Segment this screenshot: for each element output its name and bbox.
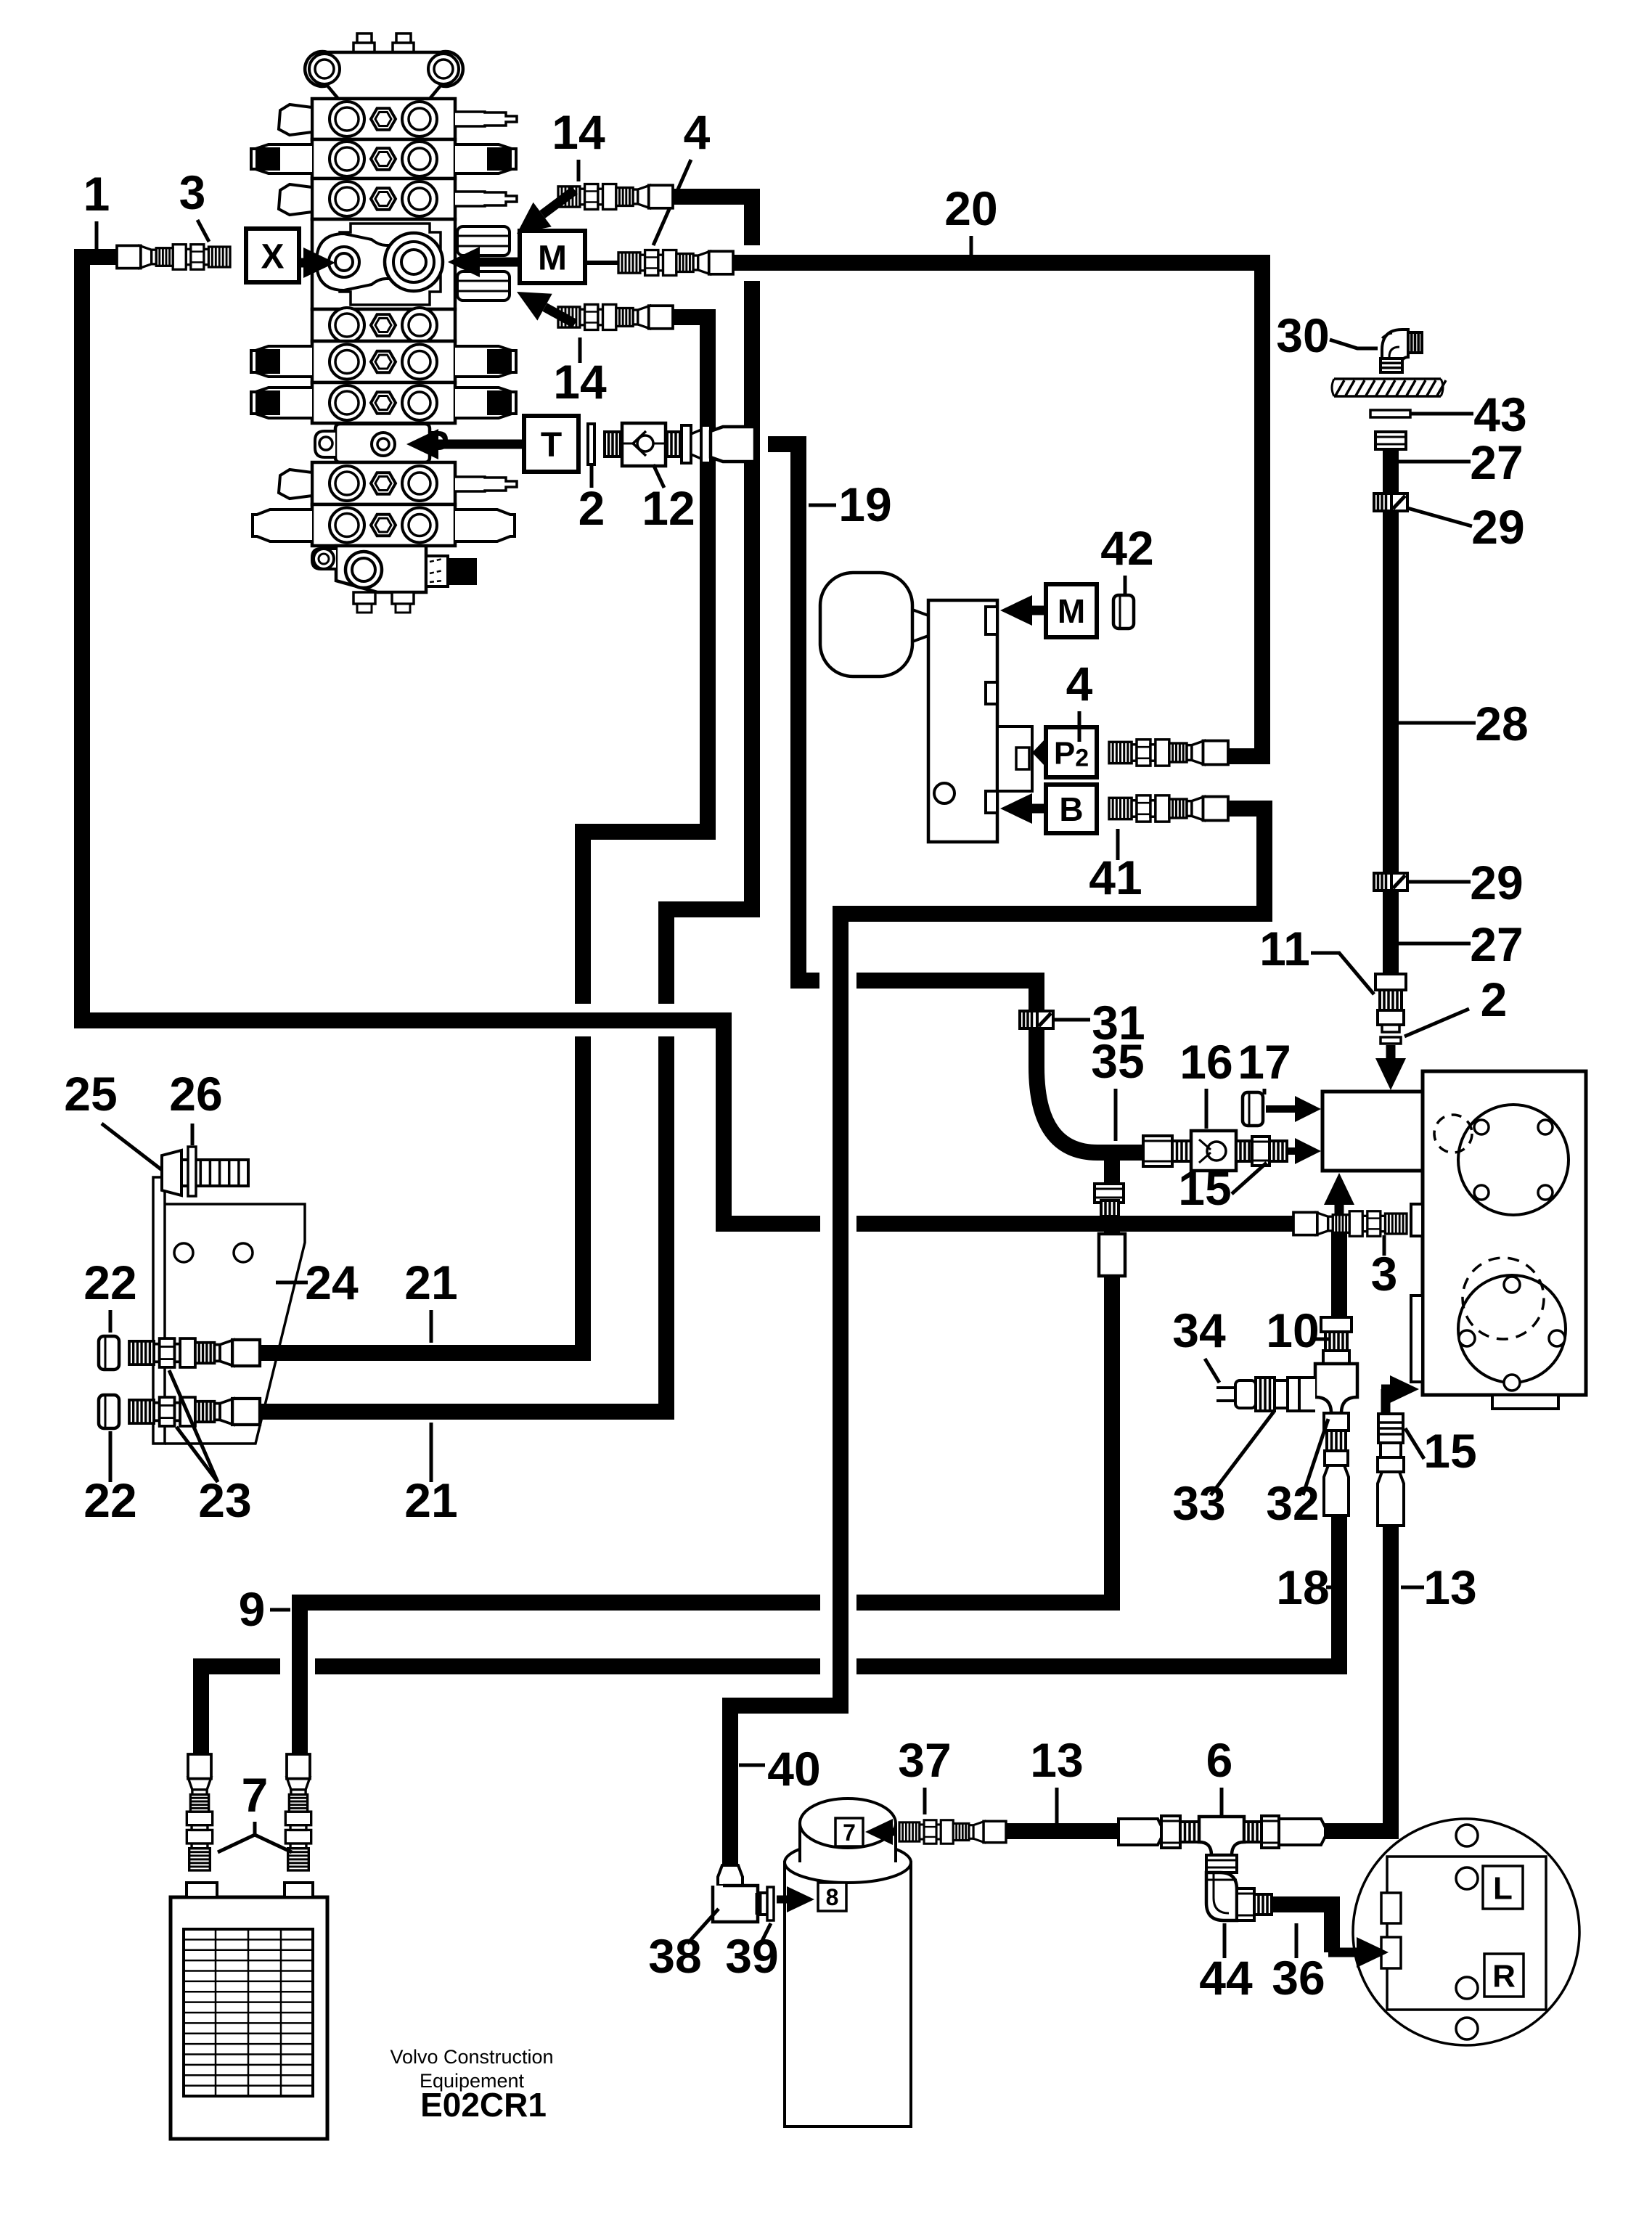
svg-text:1: 1 — [83, 167, 110, 221]
svg-text:28: 28 — [1475, 697, 1528, 750]
arrow M into spool — [448, 247, 520, 277]
svg-text:20: 20 — [944, 181, 997, 235]
svg-text:30: 30 — [1276, 308, 1329, 362]
wire hose 1 (X supply) — [82, 257, 820, 1224]
arrow up into priority valve bottom — [1324, 1173, 1354, 1219]
fitting 3 at pump — [1293, 1211, 1407, 1236]
svg-text:40: 40 — [767, 1742, 820, 1796]
svg-text:T: T — [541, 426, 562, 465]
fitting 15 lower — [1378, 1414, 1404, 1526]
plug 42 — [1113, 595, 1134, 629]
wire hose pump tee branch — [1331, 1224, 1347, 1317]
svg-text:29: 29 — [1470, 856, 1523, 909]
wire hose 18 from tee — [856, 1513, 1339, 1666]
svg-text:37: 37 — [898, 1733, 951, 1787]
fitting 11 — [1375, 974, 1406, 1032]
svg-text:L: L — [1493, 1870, 1513, 1906]
box T — [524, 416, 578, 472]
valve section row 5 — [251, 341, 516, 382]
bracket 24 — [153, 1177, 305, 1444]
elbow fitting 38 — [713, 1865, 769, 1922]
svg-text:2: 2 — [1481, 973, 1508, 1026]
wire hose 35 curve — [856, 981, 1150, 1153]
svg-text:2: 2 — [578, 481, 605, 535]
wire hose 19 from check valve 12 — [768, 444, 819, 981]
valve section row 8 — [253, 504, 515, 546]
svg-text:14: 14 — [552, 105, 605, 159]
radiator / oil cooler — [171, 1883, 327, 2139]
svg-text:35: 35 — [1091, 1034, 1144, 1088]
svg-text:13: 13 — [1423, 1560, 1476, 1614]
check valve 16 assembly — [1143, 1131, 1287, 1171]
svg-text:4: 4 — [684, 105, 711, 159]
arrow M acc — [1000, 595, 1046, 626]
wire hose 28 vertical — [1383, 447, 1399, 976]
clamp 31 — [1020, 1011, 1053, 1028]
svg-text:10: 10 — [1266, 1304, 1319, 1357]
svg-text:41: 41 — [1089, 851, 1142, 904]
valve relief end section — [312, 546, 477, 613]
svg-text:27: 27 — [1470, 917, 1523, 971]
wire hose 13 from pump — [1006, 1513, 1391, 1831]
svg-text:39: 39 — [725, 1929, 778, 1983]
fitting 32 — [1324, 1413, 1349, 1515]
fitting 41 at B — [1109, 795, 1228, 822]
svg-text:Volvo Construction: Volvo Construction — [390, 2046, 553, 2068]
svg-text:27: 27 — [1470, 435, 1523, 489]
svg-text:8: 8 — [826, 1884, 839, 1910]
svg-text:X: X — [261, 237, 284, 276]
box M accumulator — [1046, 584, 1097, 637]
box B — [1046, 785, 1097, 833]
plug 22 upper — [99, 1336, 119, 1370]
svg-text:21: 21 — [404, 1256, 457, 1309]
company text — [390, 2046, 553, 2124]
wire hose 20 (M to P2) — [732, 263, 1262, 756]
valve X/M spool section with eye — [312, 219, 510, 309]
steering unit — [1353, 1819, 1579, 2045]
seal 39 — [767, 1887, 774, 1920]
wire hose 14-lower to port — [583, 317, 708, 1004]
wire hose 41 to 40 (B return) — [730, 809, 1264, 1881]
fitting 7 right drop — [285, 1754, 311, 1870]
plug 22 lower — [99, 1395, 119, 1428]
svg-text:15: 15 — [1423, 1424, 1476, 1478]
seal 2 below 11 — [1381, 1037, 1401, 1044]
svg-text:44: 44 — [1199, 1951, 1253, 2005]
svg-text:17: 17 — [1238, 1035, 1291, 1089]
svg-text:43: 43 — [1473, 388, 1526, 441]
svg-text:19: 19 — [838, 478, 891, 531]
svg-text:36: 36 — [1272, 1951, 1325, 2005]
arrow 17 into priority valve — [1266, 1096, 1321, 1122]
plug 17 — [1243, 1092, 1263, 1126]
port box L — [1483, 1866, 1523, 1909]
arrow 14 lower into port — [517, 292, 575, 324]
bulkhead wall (hatched) — [1332, 379, 1446, 396]
wire hose 18 bus to radiator — [201, 1666, 280, 1764]
svg-text:12: 12 — [642, 481, 695, 535]
valve section row 1 — [279, 99, 517, 139]
wire hose 18 bus left — [315, 1658, 820, 1674]
tee fitting 6 — [1119, 1816, 1325, 1855]
box X — [246, 229, 299, 282]
svg-text:M: M — [538, 239, 567, 277]
box P2 — [1046, 727, 1097, 777]
wire hose 14-upper to port — [671, 197, 752, 245]
arrow P2 — [1032, 738, 1046, 767]
fitting 23 lower — [129, 1397, 260, 1426]
svg-text:24: 24 — [305, 1256, 359, 1309]
clamp 29 lower — [1374, 873, 1407, 891]
fitting 7 left drop — [187, 1754, 212, 1870]
valve T inlet section — [315, 424, 446, 462]
valve section row 3 — [279, 179, 517, 219]
arrow into priority valve top — [1375, 1045, 1406, 1090]
elbow fitting 30 — [1381, 330, 1422, 372]
arrow T into inlet — [406, 429, 524, 459]
valve section row 6 — [251, 382, 516, 423]
fittings 33/34 — [1216, 1378, 1299, 1411]
svg-text:B: B — [1059, 790, 1083, 828]
arrow into filter port 7 — [865, 1819, 897, 1845]
wire hose 36 to steering — [1272, 1904, 1332, 1952]
arrow into steering port — [1328, 1937, 1389, 1968]
svg-text:11: 11 — [1259, 922, 1310, 975]
svg-text:M: M — [1058, 592, 1085, 630]
washer 26 — [188, 1147, 196, 1196]
wire hose 44 elbow stub — [1214, 1843, 1230, 1862]
svg-text:4: 4 — [1066, 657, 1093, 711]
arrow 14 upper into port — [517, 190, 575, 234]
svg-text:9: 9 — [239, 1582, 266, 1636]
fitting at junction 35 — [1095, 1184, 1125, 1276]
fitting 14 lower — [558, 305, 673, 330]
svg-text:7: 7 — [843, 1820, 856, 1846]
fitting 3 top-left — [117, 245, 230, 269]
wire hose 21-lower — [258, 1036, 666, 1412]
accumulator and charge valve body — [820, 573, 1032, 842]
svg-text:R: R — [1492, 1958, 1516, 1994]
svg-text:18: 18 — [1276, 1560, 1329, 1614]
clamp 29 upper — [1374, 494, 1407, 511]
seal disc 2 at T — [588, 424, 594, 465]
svg-text:26: 26 — [169, 1067, 222, 1121]
valve section row 4 — [312, 308, 455, 343]
svg-text:13: 13 — [1030, 1733, 1083, 1787]
svg-text:22: 22 — [83, 1256, 136, 1309]
wire hose 9 bus left — [300, 1603, 820, 1764]
washer 43 — [1370, 410, 1410, 417]
svg-text:25: 25 — [64, 1067, 117, 1121]
box M (valve pilot) — [520, 231, 585, 283]
arrow B — [1000, 793, 1046, 824]
bolt 25 — [162, 1150, 248, 1195]
fitting 37 — [899, 1820, 1006, 1843]
svg-text:29: 29 — [1471, 500, 1524, 554]
arrow into filter port 8 — [777, 1886, 814, 1912]
port box R — [1484, 1954, 1524, 1997]
wire hose 14-upper down leg — [666, 281, 752, 1004]
wire hose 21-upper — [258, 1036, 583, 1353]
elbow fitting 44 and fitting 36 — [1206, 1855, 1272, 1920]
pump assembly — [1411, 1071, 1586, 1409]
priority valve block — [1322, 1092, 1423, 1171]
valve block mounting bracket — [305, 33, 463, 99]
wire hose 35 tee down / line 9 vertical — [856, 1153, 1112, 1603]
svg-text:3: 3 — [179, 165, 206, 219]
svg-text:34: 34 — [1172, 1304, 1226, 1357]
port box 7 on filter — [835, 1818, 863, 1846]
filter assembly — [785, 1798, 911, 2127]
port box 8 on filter — [818, 1883, 846, 1911]
svg-text:16: 16 — [1179, 1035, 1232, 1089]
svg-text:42: 42 — [1100, 521, 1153, 575]
check valve 12 — [605, 423, 755, 466]
svg-text:E02CR1: E02CR1 — [420, 2086, 547, 2124]
fitting 4 at P2 — [1109, 740, 1228, 766]
svg-text:14: 14 — [553, 355, 607, 409]
fitting 4 at M — [618, 250, 733, 276]
svg-text:7: 7 — [242, 1768, 269, 1822]
valve section row 2 — [251, 139, 516, 179]
svg-text:6: 6 — [1206, 1733, 1233, 1787]
wire hose 1 continuation to pump — [856, 1216, 1307, 1232]
svg-text:15: 15 — [1178, 1161, 1231, 1215]
svg-text:32: 32 — [1266, 1476, 1319, 1530]
svg-text:23: 23 — [198, 1473, 251, 1527]
fitting 23 upper — [129, 1338, 260, 1367]
tee fitting 10 — [1299, 1317, 1357, 1413]
valve section row 7 — [279, 462, 517, 504]
hose nut 27 top — [1375, 432, 1406, 449]
arrow X into spool — [300, 247, 335, 278]
fitting 14 upper — [558, 184, 673, 210]
arrow 16 into priority valve — [1287, 1138, 1321, 1164]
